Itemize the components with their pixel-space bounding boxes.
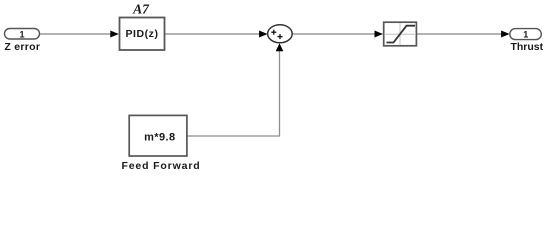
- svg-text:Thrust: Thrust: [510, 41, 543, 53]
- svg-text:A7: A7: [132, 2, 150, 17]
- svg-text:Z error: Z error: [4, 41, 40, 53]
- svg-text:1: 1: [523, 29, 528, 39]
- svg-text:m*9.8: m*9.8: [144, 131, 175, 143]
- svg-text:PID(z): PID(z): [125, 28, 158, 40]
- svg-text:1: 1: [19, 29, 24, 39]
- svg-text:Feed Forward: Feed Forward: [121, 160, 200, 172]
